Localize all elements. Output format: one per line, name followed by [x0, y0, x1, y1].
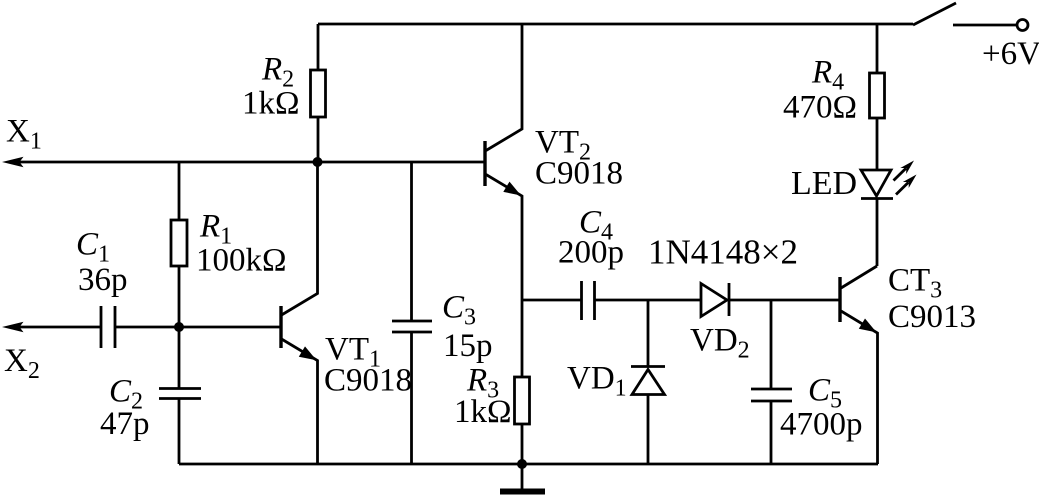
wire C2 top [178, 327, 181, 388]
wire C5 bottom [770, 401, 773, 464]
svg-text:470Ω: 470Ω [783, 90, 857, 126]
LED D1 [861, 170, 893, 199]
resistor R1 [171, 220, 187, 266]
wire switch to terminal [953, 24, 1016, 27]
arrow VT1 emitter [299, 346, 317, 360]
resistor R3 [515, 377, 530, 424]
wire ground stub [521, 464, 524, 489]
svg-text:VD1: VD1 [567, 361, 627, 402]
transistor VT2 [485, 24, 522, 300]
capacitor C1 [101, 306, 115, 348]
wire C3 top [410, 162, 413, 321]
svg-text:CT3: CT3 [888, 263, 942, 304]
transistor CT3 [840, 266, 878, 464]
wire bottom rail [179, 463, 878, 466]
svg-text:100kΩ: 100kΩ [196, 243, 287, 279]
capacitor C4 [582, 281, 595, 320]
wire C3 bottom [410, 332, 413, 464]
wire mid rail right [729, 299, 840, 302]
resistor R2 [311, 70, 326, 117]
arrow X2 terminal [2, 322, 24, 332]
transistor VT1 [281, 162, 318, 464]
wire VD1 bottom [647, 395, 650, 465]
wire LED to CT3 collector [876, 199, 879, 267]
svg-text:200p: 200p [558, 235, 624, 271]
svg-text:C9013: C9013 [888, 299, 976, 335]
svg-text:15p: 15p [443, 328, 493, 364]
wire R3 bottom [521, 424, 524, 464]
svg-text:1N4148×2: 1N4148×2 [648, 233, 798, 272]
wire VD1 top [647, 300, 650, 367]
wire R4 top [876, 24, 879, 73]
svg-text:X2: X2 [4, 343, 40, 384]
wire mid rail left [522, 299, 581, 302]
wire R3 top [521, 300, 524, 377]
LED light arrow 1 [894, 161, 915, 181]
LED light arrow 2 [896, 175, 917, 195]
arrow X1 terminal [2, 157, 24, 167]
ground [500, 489, 545, 495]
capacitor C3 [392, 321, 432, 332]
svg-text:4700p: 4700p [780, 407, 863, 443]
arrow CT3 emitter [859, 319, 877, 333]
capacitor C2 [159, 389, 201, 399]
wire mid rail center [595, 299, 702, 302]
resistor R4 [870, 73, 885, 118]
svg-text:C9018: C9018 [324, 363, 412, 399]
node +6V terminal [1017, 20, 1028, 31]
diode VD2 [701, 283, 729, 317]
wire X1 line [8, 161, 485, 164]
wire C5 top [770, 300, 773, 389]
node junction ground [517, 459, 527, 469]
node junction X1/R2/VT1 [313, 157, 323, 167]
wire R1 bottom [178, 266, 181, 327]
wire R2 top [317, 24, 320, 70]
wire X2 right [115, 326, 281, 329]
wire C2 bottom [178, 399, 181, 465]
svg-text:C9018: C9018 [535, 156, 623, 192]
svg-text:36p: 36p [78, 262, 128, 298]
arrow VT2 emitter [503, 182, 521, 196]
svg-text:+6V: +6V [982, 36, 1039, 72]
svg-text:1kΩ: 1kΩ [454, 394, 512, 430]
svg-text:VD2: VD2 [690, 323, 750, 364]
svg-text:LED: LED [791, 165, 857, 202]
svg-text:1kΩ: 1kΩ [242, 86, 300, 122]
wire X2 left [8, 326, 101, 329]
wire top rail [318, 23, 913, 26]
wire R2 bottom [317, 117, 320, 162]
svg-text:47p: 47p [100, 406, 150, 442]
capacitor C5 [751, 389, 792, 401]
wire R1 top [178, 162, 181, 220]
node junction X2/R1/C2 [174, 322, 184, 332]
svg-text:X1: X1 [6, 114, 42, 155]
svg-text:C3: C3 [442, 290, 476, 331]
wire R4 bottom [876, 118, 879, 170]
switch S [913, 3, 956, 25]
diode VD1 [631, 367, 665, 395]
